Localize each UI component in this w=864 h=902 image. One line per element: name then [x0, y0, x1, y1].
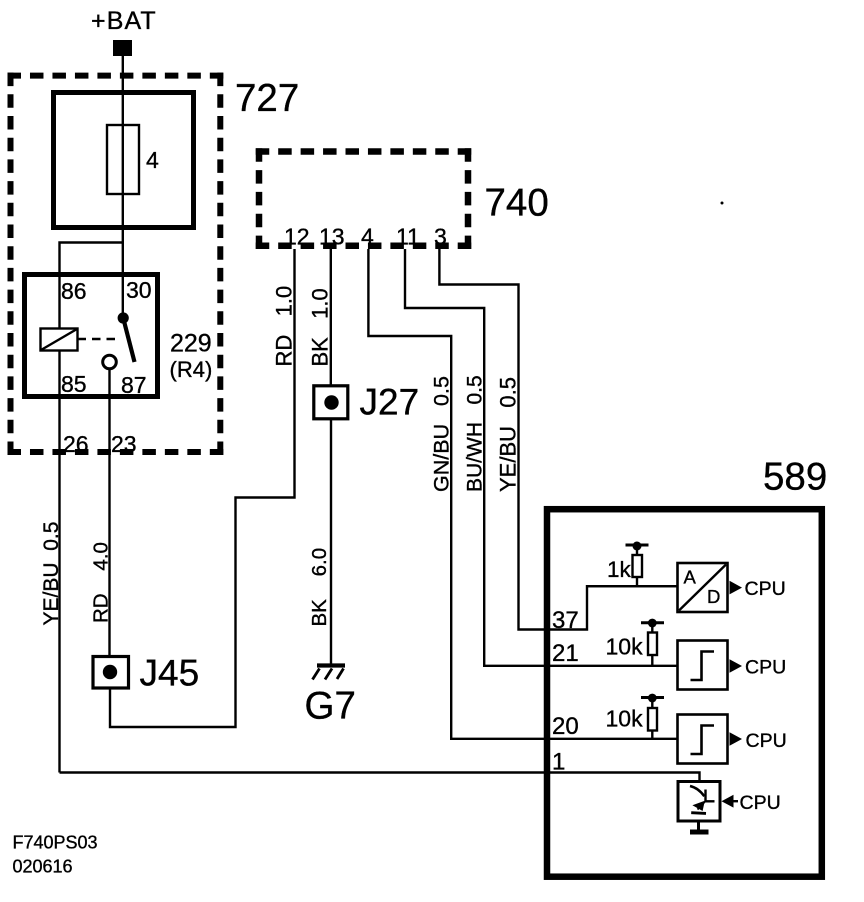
- svg-text:740: 740: [485, 182, 549, 225]
- svg-text:BU/WH 0.5: BU/WH 0.5: [464, 375, 487, 492]
- relay box 229 (R4): [25, 275, 158, 397]
- supply rail row1: [626, 542, 649, 551]
- svg-text:RD 4.0: RD 4.0: [90, 542, 113, 623]
- arrow row1 to CPU: [730, 581, 743, 595]
- splice J27: [314, 386, 348, 419]
- svg-text:F740PS03: F740PS03: [13, 833, 98, 853]
- relay coil: [41, 329, 78, 351]
- svg-text:D: D: [707, 586, 720, 607]
- terminal +BAT: [113, 40, 132, 56]
- resistor 10k row2: [648, 623, 657, 666]
- transistor emitter to ground: [690, 821, 709, 835]
- relay switch common dot (pin 30): [118, 312, 129, 323]
- wire 740 pin 11 to 589 pin 21 (BU/WH 0.5): [405, 249, 677, 666]
- relay contact 87 circle: [103, 355, 117, 369]
- arrow row2 to CPU: [730, 659, 743, 673]
- svg-text:+BAT: +BAT: [91, 7, 157, 35]
- svg-text:37: 37: [552, 607, 579, 634]
- svg-text:30: 30: [126, 277, 152, 303]
- svg-text:1k: 1k: [607, 557, 632, 582]
- svg-text:12: 12: [284, 224, 310, 250]
- relay dashed actuator link: [78, 338, 122, 341]
- svg-text:020616: 020616: [13, 857, 73, 877]
- svg-text:4: 4: [361, 224, 374, 250]
- schmitt trigger row2: [678, 641, 728, 690]
- connector 740 dashed box: [256, 148, 472, 249]
- ECU box 589: [547, 509, 822, 877]
- wire pin 1 long bottom: [60, 773, 700, 782]
- svg-text:CPU: CPU: [740, 792, 781, 814]
- svg-text:26: 26: [63, 431, 89, 457]
- supply rail row2: [641, 619, 664, 628]
- svg-text:10k: 10k: [606, 634, 644, 660]
- svg-text:CPU: CPU: [745, 578, 786, 600]
- svg-text:BK 1.0: BK 1.0: [308, 288, 333, 366]
- svg-text:86: 86: [61, 278, 87, 304]
- arrow CPU into transistor (row4): [722, 795, 739, 808]
- svg-text:23: 23: [111, 431, 137, 457]
- svg-text:4: 4: [146, 147, 159, 173]
- arrow row3 to CPU: [730, 732, 743, 746]
- supply rail row3: [641, 694, 664, 703]
- wire 740 pin 13 to J27 (BK 1.0): [330, 249, 332, 386]
- svg-text:20: 20: [552, 713, 579, 740]
- A/D converter U-AD: [678, 563, 728, 612]
- fuse holder box: [54, 93, 194, 228]
- wire pin 26 YE/BU 0.5 down: [58, 350, 60, 773]
- svg-text:3: 3: [434, 224, 447, 250]
- svg-text:10k: 10k: [606, 706, 644, 732]
- svg-text:G7: G7: [305, 685, 356, 728]
- svg-text:727: 727: [235, 77, 299, 120]
- svg-text:85: 85: [61, 371, 87, 397]
- svg-text:CPU: CPU: [746, 730, 787, 752]
- resistor 1k: [633, 546, 643, 587]
- resistor 10k row3: [648, 698, 657, 740]
- relay switch blade: [123, 318, 134, 362]
- output transistor box: [678, 782, 720, 822]
- svg-text:87: 87: [121, 372, 147, 398]
- svg-text:RD 1.0: RD 1.0: [272, 286, 297, 367]
- svg-text:229: 229: [170, 330, 212, 358]
- wire junction to relay pin 86: [60, 243, 123, 274]
- svg-text:J27: J27: [360, 382, 420, 423]
- ground G7 symbol: [313, 666, 346, 680]
- wire row1 to A/D: [587, 585, 677, 587]
- wire J45 to 740 pin 12 (RD 1.0): [110, 249, 295, 727]
- svg-text:J45: J45: [140, 652, 200, 693]
- svg-text:CPU: CPU: [745, 657, 786, 679]
- svg-text:11: 11: [396, 224, 420, 250]
- svg-text:(R4): (R4): [170, 357, 213, 382]
- svg-text:21: 21: [552, 640, 579, 667]
- svg-text:589: 589: [763, 456, 827, 499]
- wire 740 pin 4 to 589 pin 20 (GN/BU 0.5): [368, 249, 677, 739]
- schmitt trigger row3: [678, 715, 728, 764]
- svg-text:YE/BU 0.5: YE/BU 0.5: [40, 522, 63, 626]
- speck: [721, 202, 724, 205]
- svg-text:13: 13: [319, 224, 345, 250]
- svg-text:A: A: [684, 566, 697, 587]
- wire J27 to ground G7 (BK 6.0): [330, 419, 332, 666]
- wire pin 23 RD 4.0 to J45: [108, 368, 110, 656]
- svg-text:GN/BU 0.5: GN/BU 0.5: [430, 376, 454, 492]
- splice J45: [93, 657, 129, 689]
- wire 740 pin 3 to 589 pin 37 (YE/BU 0.5): [439, 249, 677, 630]
- fuse F4: [107, 125, 139, 194]
- svg-text:YE/BU 0.5: YE/BU 0.5: [496, 377, 521, 492]
- fuse/relay center 727 dashed enclosure: [8, 73, 224, 455]
- wire relay pin 86 to coil: [58, 272, 60, 329]
- wire +BAT down through fuse to relay pin 30: [122, 56, 124, 318]
- svg-text:BK 6.0: BK 6.0: [308, 548, 331, 627]
